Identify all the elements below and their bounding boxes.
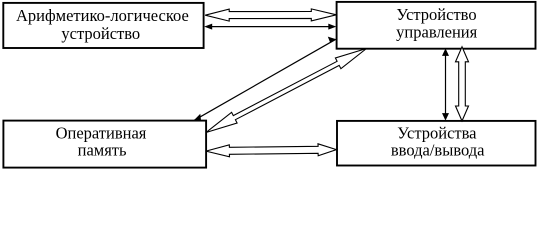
hollow double arrow RAM-CU (diagonal) [206,49,367,133]
svg-text:Арифметико-логическое: Арифметико-логическое [16,6,189,25]
hollow double arrow RAM-IO [206,144,337,157]
svg-text:ввода/вывода: ввода/вывода [391,141,485,160]
box: Control Unit (Устройство управления) [337,2,536,49]
box: I/O (Устройства ввода/вывода) [337,121,536,166]
hollow double arrow CU-IO [456,47,469,121]
thin double arrow CU-IO [442,48,449,120]
thin double arrow ALU-CU [204,24,336,30]
hollow double arrow ALU-CU [205,9,336,21]
thin double arrow RAM-CU (diagonal) [194,37,336,121]
svg-text:Устройство: Устройство [396,5,476,24]
box: ALU (Арифметико-логическое устройство) [3,3,203,48]
box: RAM (Оперативная память) [3,121,206,168]
svg-text:управления: управления [396,22,477,41]
svg-text:устройство: устройство [61,24,140,43]
svg-text:память: память [78,140,127,159]
